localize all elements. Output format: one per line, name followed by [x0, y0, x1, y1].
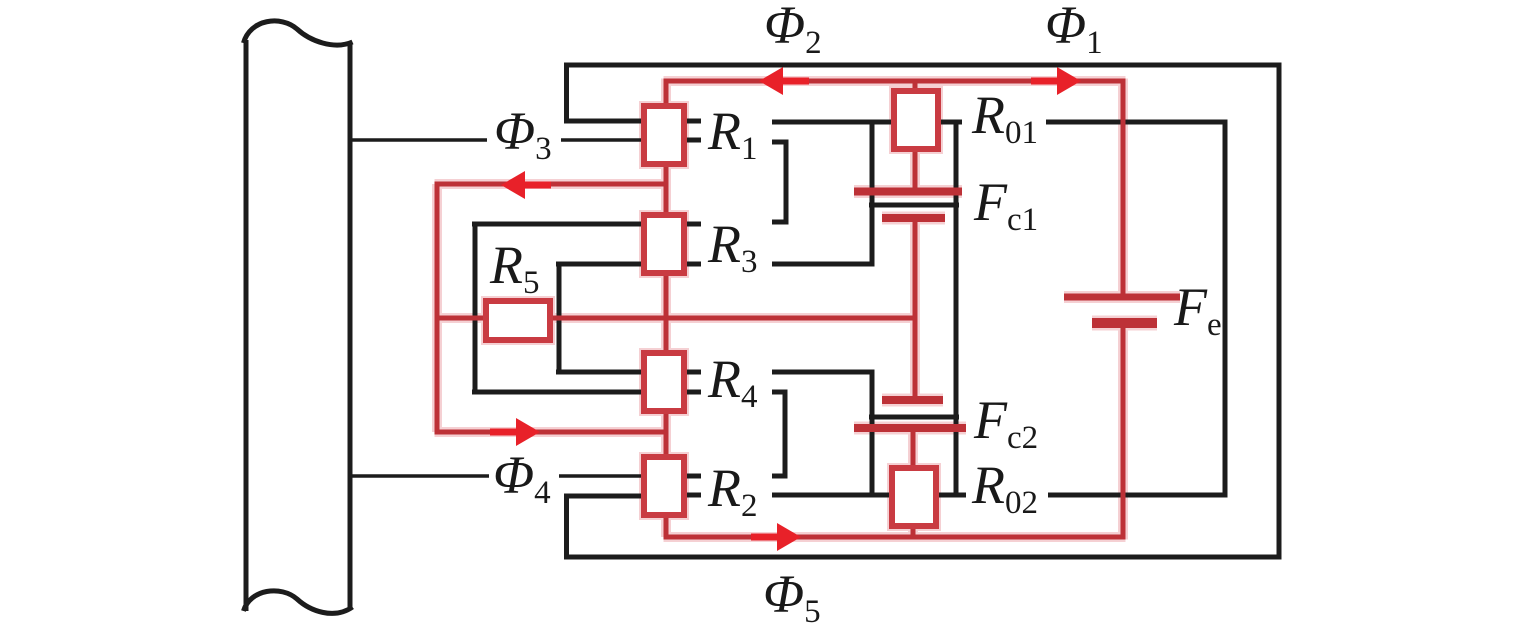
- wire red flux bus bottom halo: [664, 532, 1126, 542]
- wire red resistor column halo: [661, 79, 671, 538]
- wire outer C bottom to R4: [472, 390, 645, 395]
- svg-text:Fc1: Fc1: [973, 172, 1038, 238]
- wire phi4 from yoke: [350, 474, 489, 478]
- wire red left loop vertical: [435, 184, 440, 432]
- wire red left loop bottom halo: [435, 427, 667, 437]
- wire outer C top to R3: [472, 222, 645, 227]
- mmf source Fc1 long plate halo: [854, 185, 962, 198]
- wire bracket R1-R3 vertical: [784, 140, 789, 225]
- mmf source Fe short plate halo: [1092, 316, 1157, 331]
- wire outer loop right: [1277, 63, 1282, 560]
- wire stem Fc1 to Fc2 halo: [910, 218, 920, 400]
- wire red left loop bottom: [435, 430, 667, 435]
- wire inner loop right vertical: [1223, 120, 1228, 498]
- wire stem Fc2 to R02: [911, 428, 916, 470]
- resistor R01: [894, 91, 938, 149]
- mmf source Fe long plate halo: [1064, 291, 1180, 303]
- wire red flux bus bottom: [664, 535, 1126, 540]
- svg-text:R5: R5: [489, 235, 540, 301]
- mmf source Fc2 short plate: [882, 396, 943, 404]
- resistor R1: [644, 106, 684, 164]
- resistor R3: [644, 215, 684, 273]
- wire red branch through R5: [435, 316, 916, 321]
- wire R4 to Fc rail: [772, 370, 874, 375]
- svg-text:Φ4: Φ4: [493, 445, 551, 511]
- wire stem R02 bottom halo: [908, 524, 918, 539]
- wire outer loop left upper vertical: [564, 63, 569, 124]
- wire red Fe branch upper: [1121, 79, 1126, 295]
- wire bracket R4-R2 top tick: [772, 390, 787, 395]
- wire phi3 from yoke: [350, 138, 487, 142]
- wire red branch through R5 halo: [435, 313, 916, 323]
- mmf source Fe long plate: [1064, 294, 1180, 301]
- wire outer loop top: [564, 63, 1281, 68]
- wire bracket R1-R3 top tick: [772, 140, 788, 145]
- wire R3 to Fc rail: [772, 262, 874, 267]
- wire Fc rail left upper vertical: [870, 120, 875, 267]
- resistor R4 halo: [644, 353, 684, 411]
- wire Fc1 centre tap: [869, 203, 959, 208]
- mmf source Fc2 short plate halo: [882, 394, 943, 407]
- wire R3 right stub lower: [685, 262, 701, 267]
- wire yoke bar left edge: [244, 40, 249, 611]
- wire stem R01 top halo: [910, 81, 920, 95]
- wire R4 right stub lower: [685, 390, 701, 395]
- wire stem Fc2 to R02 halo: [908, 428, 918, 470]
- svg-text:R02: R02: [971, 455, 1038, 521]
- wire R4 right stub upper: [685, 370, 701, 375]
- resistor R5 halo: [486, 301, 550, 340]
- wire yoke bottom break: [244, 591, 353, 614]
- svg-text:Φ5: Φ5: [763, 564, 821, 630]
- svg-text:R2: R2: [707, 458, 758, 524]
- wire Fc rail left lower vertical: [870, 370, 875, 498]
- arrow left loop bottom (rightward): [516, 418, 540, 446]
- wire red left loop top: [435, 182, 667, 187]
- wire inner C bottom to R4: [556, 370, 645, 375]
- wire inner loop bottom: [1048, 493, 1227, 498]
- resistor R2 halo: [644, 457, 684, 515]
- wire inner C top to R3: [556, 262, 645, 267]
- resistor R01 halo: [894, 91, 938, 149]
- resistor R02: [892, 468, 936, 526]
- mmf source Fc2 long plate halo: [854, 422, 966, 435]
- svg-text:Φ2: Φ2: [764, 0, 822, 61]
- wire R2 right stub lower: [685, 493, 701, 498]
- wire outer loop elbow to R1: [564, 119, 645, 124]
- resistor R5: [486, 301, 550, 340]
- wire R3 right stub upper: [685, 222, 701, 227]
- svg-text:R1: R1: [707, 101, 758, 167]
- wire Fc rail right vertical: [954, 120, 959, 498]
- wire red left loop vertical halo: [432, 184, 442, 432]
- resistor R3 halo: [644, 215, 684, 273]
- wire phi4 to R2: [559, 474, 643, 478]
- arrow flux phi1 (rightward): [1057, 67, 1081, 95]
- wire bracket R4-R2 vertical: [783, 390, 788, 479]
- wire inner C vertical: [557, 262, 562, 375]
- wire R2 to R02 frame: [772, 493, 966, 498]
- wire outer loop elbow to R2: [564, 494, 643, 499]
- wire stem Fc1 to Fc2: [913, 218, 918, 400]
- wire stem R01 to Fc1 halo: [910, 148, 920, 192]
- resistor R02 halo: [892, 468, 936, 526]
- svg-text:R4: R4: [707, 349, 758, 415]
- mmf source Fc1 short plate halo: [882, 212, 945, 225]
- wire bracket R1-R3 bottom tick: [772, 220, 788, 225]
- wire red resistor column: [664, 79, 669, 538]
- wire yoke top break: [244, 21, 353, 45]
- arrow flux phi2 (leftward): [759, 67, 783, 95]
- svg-text:Fc2: Fc2: [973, 390, 1038, 456]
- wire yoke bar right edge: [348, 43, 353, 607]
- wire red Fe branch lower halo: [1118, 326, 1128, 540]
- resistor R4: [644, 353, 684, 411]
- wire stem R02 bottom: [911, 524, 916, 539]
- wire R2 right stub upper: [685, 474, 701, 479]
- mmf source Fc2 long plate: [854, 424, 966, 432]
- wire R1 to Fc1 frame: [772, 120, 962, 125]
- wire inner loop top: [1046, 120, 1227, 125]
- mmf source Fc1 short plate: [882, 214, 945, 222]
- wire Fc2 centre tap: [869, 415, 959, 420]
- wire phi3 to R1: [561, 138, 645, 142]
- mmf source Fc1 long plate: [854, 188, 962, 196]
- wire outer loop left lower vertical: [564, 494, 569, 560]
- wire stem R01 to Fc1: [913, 148, 918, 192]
- wire R1 right stub lower: [685, 138, 701, 143]
- svg-text:R3: R3: [707, 214, 758, 280]
- wire red Fe branch upper halo: [1118, 79, 1128, 295]
- wire red flux bus top: [664, 79, 1126, 84]
- wire red left loop top halo: [435, 179, 667, 189]
- wire red flux bus top halo: [664, 76, 1126, 86]
- svg-text:Φ1: Φ1: [1045, 0, 1103, 61]
- arrow left loop top (leftward): [501, 171, 525, 199]
- resistor R1 halo: [644, 106, 684, 164]
- wire bracket R4-R2 bottom tick: [772, 474, 787, 479]
- arrow flux phi5 (rightward): [777, 523, 801, 551]
- svg-text:Φ3: Φ3: [494, 101, 552, 167]
- svg-text:Fe: Fe: [1173, 277, 1222, 343]
- svg-text:R01: R01: [971, 85, 1038, 151]
- wire outer C vertical: [473, 222, 478, 395]
- resistor R2: [644, 457, 684, 515]
- mmf source Fe short plate: [1092, 318, 1157, 328]
- wire red Fe branch lower: [1121, 326, 1126, 540]
- wire stem R01 top: [913, 81, 918, 95]
- wire outer loop bottom: [564, 555, 1281, 560]
- wire R1 right stub upper: [685, 119, 701, 124]
